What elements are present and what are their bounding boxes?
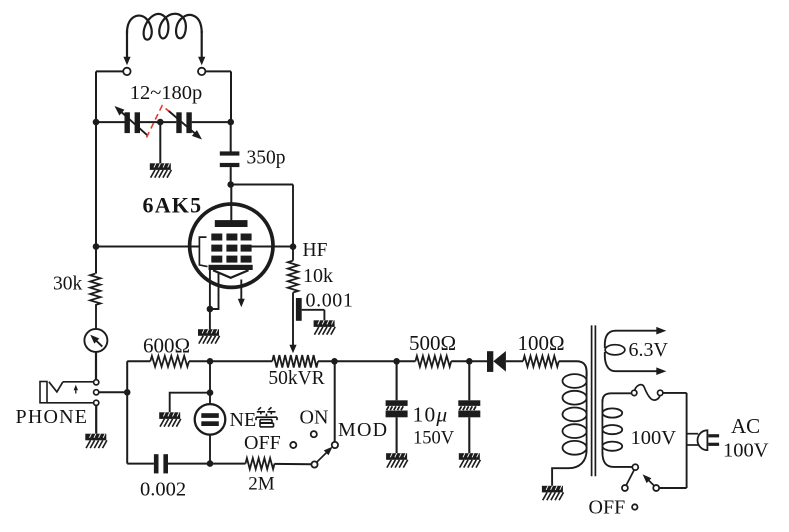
wire — [168, 463, 246, 465]
wire — [451, 360, 488, 362]
coil terminal (left) — [123, 68, 130, 75]
svg-text:50kVR: 50kVR — [268, 368, 324, 389]
node (phone/bus junction) — [124, 389, 131, 396]
svg-text:PHONE: PHONE — [16, 406, 89, 428]
ground (NE spur) — [159, 412, 181, 426]
label PHONE — [16, 406, 89, 428]
switch lever contact — [311, 461, 317, 467]
label 350p — [247, 148, 286, 169]
meter M1 — [84, 329, 107, 352]
svg-text:10μ: 10μ — [413, 403, 449, 427]
label 600ohm — [143, 333, 190, 357]
svg-text:100V: 100V — [631, 427, 677, 449]
capacitor 0.002 — [154, 454, 168, 473]
node (grid node) — [227, 181, 234, 188]
jack wiper arrow — [74, 385, 78, 394]
wire (MOD drop) — [334, 361, 336, 442]
wire — [659, 487, 687, 489]
svg-text:0.002: 0.002 — [140, 478, 186, 500]
wire — [95, 405, 97, 433]
capacitor 0.001 plate — [296, 298, 302, 321]
ground (cathode) — [198, 329, 220, 343]
jack contact (ring) — [94, 390, 99, 395]
tube V1 cathode — [209, 265, 253, 270]
wire — [63, 381, 94, 383]
svg-text:30k: 30k — [53, 274, 83, 295]
node — [466, 358, 473, 365]
ground (jack sleeve) — [85, 434, 107, 448]
transformer T1 primary winding — [563, 374, 587, 455]
svg-text:10k: 10k — [303, 265, 333, 287]
wire (heater lead) — [210, 272, 219, 309]
switch lever arrow — [317, 447, 333, 463]
resistor 30k — [90, 274, 100, 305]
phone plug tip — [49, 382, 63, 392]
capacitor 350p — [220, 151, 240, 167]
node — [393, 358, 400, 365]
node (choke top) — [290, 243, 297, 250]
label 10k — [303, 265, 333, 287]
label 6.3V — [629, 339, 669, 361]
fuse terminal left — [632, 390, 637, 395]
label 0.002 — [140, 478, 186, 500]
ground (primary) — [542, 486, 564, 500]
choke/resistor HF 10k — [288, 261, 298, 293]
tube V1 grid — [211, 234, 251, 263]
label OFF (power) — [589, 497, 626, 519]
tube V1 envelope — [190, 204, 273, 287]
transformer T1 100V winding — [602, 400, 622, 454]
wiper arrow — [289, 345, 296, 354]
svg-text:500Ω: 500Ω — [409, 331, 456, 355]
switch common MOD — [332, 442, 338, 448]
gang link (red dashed) — [147, 106, 169, 138]
jack contact (tip) — [94, 380, 99, 385]
wire (primary to ground) — [552, 450, 587, 486]
wire (grid lead left) — [96, 246, 199, 248]
wire — [209, 309, 211, 329]
wire — [126, 361, 128, 463]
AC plug prongs — [708, 434, 719, 446]
variable capacitor C1a arrow — [115, 106, 148, 136]
transformer T1 6.3V winding — [605, 345, 625, 355]
label ON — [300, 407, 329, 429]
wire — [323, 310, 325, 321]
label 150V — [413, 429, 455, 449]
wire — [209, 435, 211, 464]
wire — [209, 361, 211, 404]
wire — [230, 122, 232, 152]
wire — [96, 121, 125, 123]
label 50kVR — [268, 368, 324, 389]
label 100V (winding) — [631, 427, 677, 449]
heater arrow (to 6.3V) — [238, 280, 245, 308]
transformer T1 core — [592, 325, 596, 476]
power switch common — [632, 464, 638, 470]
label 2M — [248, 474, 275, 495]
node (cathode junction) — [207, 306, 214, 313]
label 100V (AC) — [723, 440, 769, 462]
svg-text:600Ω: 600Ω — [143, 333, 190, 357]
wire — [95, 305, 97, 329]
fuse F1 curve — [634, 385, 660, 400]
wire (anode top lead) — [230, 185, 232, 221]
svg-text:6AK5: 6AK5 — [143, 193, 203, 218]
label MOD — [338, 419, 388, 441]
label OFF — [244, 432, 281, 454]
resistor 100ohm — [523, 356, 559, 367]
wire — [302, 309, 325, 311]
wire — [127, 360, 150, 362]
wire — [506, 360, 523, 362]
tube V1 anode — [215, 220, 248, 227]
label 0.001 — [306, 290, 354, 312]
node (tank bus right) — [227, 119, 234, 126]
node — [207, 460, 214, 467]
label 10u — [413, 403, 449, 427]
node — [207, 389, 214, 396]
svg-text:AC: AC — [731, 414, 760, 438]
jack contact (sleeve) — [94, 400, 99, 405]
variable capacitor C1b arrow — [168, 111, 202, 140]
phone plug body — [40, 382, 47, 403]
C filter 10u (right) — [458, 361, 480, 453]
power switch lever — [643, 474, 655, 486]
inductor L1 (plug-in tank coil) — [123, 14, 205, 65]
wire — [160, 121, 176, 123]
coil terminal (right) — [198, 68, 205, 75]
ground (10u) — [386, 453, 408, 467]
svg-text:6.3V: 6.3V — [629, 339, 669, 361]
power switch left contact — [622, 485, 628, 491]
svg-text:NE: NE — [230, 409, 257, 431]
wire — [275, 463, 312, 465]
wire (plug leads) — [687, 434, 699, 445]
neon lamp NE — [195, 404, 226, 435]
node (grid tap on left rail) — [93, 243, 100, 250]
wire — [192, 121, 231, 123]
C filter 10u (left) — [386, 361, 408, 453]
wire (cathode lead) — [209, 270, 211, 309]
wire — [318, 360, 397, 362]
wire — [292, 185, 294, 261]
fuse terminal right — [658, 390, 663, 395]
variable capacitor C1b (12~180p) plates — [176, 112, 191, 133]
svg-text:150V: 150V — [413, 429, 455, 449]
power switch right contact — [653, 485, 659, 491]
svg-text:HF: HF — [303, 240, 328, 261]
6.3V lead bottom — [605, 352, 667, 375]
wire (choke to wiper) — [292, 293, 294, 350]
wire (to transformer primary) — [559, 361, 587, 376]
wire (to HF choke) — [231, 184, 293, 186]
wire (right rail upper) — [230, 71, 232, 122]
wire (to ground spur) — [170, 393, 210, 413]
label NE-tube (NE + CJK guan) — [230, 407, 278, 431]
wire — [95, 352, 97, 380]
wire (rotor to ground) — [159, 122, 161, 163]
power switch left throw — [626, 470, 634, 486]
100V winding top lead — [602, 393, 631, 402]
svg-text:12~180p: 12~180p — [130, 82, 203, 104]
svg-text:OFF: OFF — [244, 432, 281, 454]
variable capacitor C1a (12~180p) plates — [125, 112, 141, 133]
resistor 2M — [246, 458, 275, 469]
svg-text:2M: 2M — [248, 474, 275, 495]
label 30k — [53, 274, 83, 295]
wire (left rail upper) — [95, 71, 97, 122]
label 500ohm — [409, 331, 456, 355]
tube V1 heater — [213, 270, 249, 278]
diode D1 — [487, 351, 506, 372]
tube V1 grid bracket — [199, 237, 207, 267]
wire (lead right) — [252, 246, 294, 248]
label 12~180p — [130, 82, 203, 104]
AC plug body — [698, 430, 708, 450]
label HF — [303, 240, 328, 261]
wire (left rail mid) — [95, 122, 97, 274]
wire — [127, 463, 154, 465]
100V winding bottom lead — [602, 452, 632, 467]
resistor 500ohm — [415, 356, 451, 367]
wire — [189, 360, 272, 362]
wire — [140, 121, 160, 123]
node (tank bus left) — [93, 119, 100, 126]
svg-text:ON: ON — [300, 407, 329, 429]
svg-text:OFF: OFF — [589, 497, 626, 519]
ground (10u) — [459, 453, 481, 467]
wire — [47, 402, 94, 404]
potentiometer 50kVR — [272, 355, 318, 367]
node — [207, 358, 214, 365]
switch contact OFF — [290, 442, 296, 448]
svg-text:350p: 350p — [247, 148, 286, 169]
label AC — [731, 414, 760, 438]
wire (ring to bus) — [99, 391, 127, 393]
svg-text:MOD: MOD — [338, 419, 388, 441]
switch contact ON — [311, 431, 317, 437]
label 6AK5 — [143, 193, 203, 218]
node (rotor junction) — [157, 119, 164, 126]
power OFF contact — [632, 504, 637, 509]
ground (tuning capacitor rotor) — [150, 163, 172, 177]
6.3V lead top — [605, 327, 667, 348]
wire — [663, 392, 687, 394]
svg-text:0.001: 0.001 — [306, 290, 354, 312]
label 100ohm — [517, 331, 564, 355]
wire — [230, 167, 232, 184]
svg-text:100V: 100V — [723, 440, 769, 462]
wire — [397, 360, 416, 362]
wire — [205, 70, 231, 72]
svg-text:100Ω: 100Ω — [517, 331, 564, 355]
resistor 600ohm — [150, 356, 189, 367]
node — [331, 358, 338, 365]
wire (right drop) — [686, 393, 688, 488]
ground (0.001) — [314, 320, 336, 334]
wire — [96, 70, 123, 72]
